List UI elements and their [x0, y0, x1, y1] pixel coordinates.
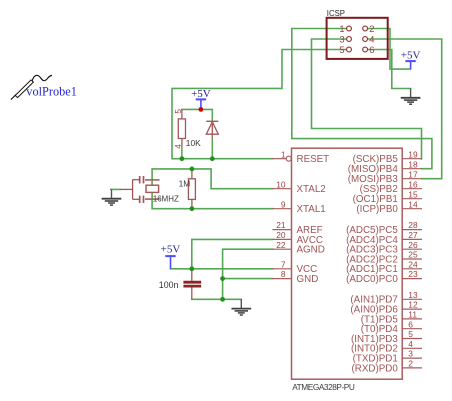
- svg-text:+5V: +5V: [401, 50, 421, 62]
- IC pin 7 VCC stub: [272, 268, 291, 270]
- svg-text:4: 4: [408, 339, 413, 349]
- svg-text:11: 11: [408, 310, 417, 320]
- svg-text:1: 1: [339, 23, 344, 34]
- svg-text:1: 1: [281, 149, 286, 159]
- IC U1 ATMEGA328P-PU body: [292, 148, 403, 379]
- ICSP pin 1 pad: [347, 26, 352, 31]
- wire net GND-ICSP: ICSP pin6 to ground symbol: [365, 50, 411, 89]
- svg-text:17: 17: [408, 169, 418, 179]
- IC pin 11 (T1)PD5 stub: [402, 318, 422, 320]
- IC pin 19 (SCK)PB5 stub: [402, 158, 422, 160]
- svg-text:16: 16: [408, 179, 418, 189]
- svg-text:2: 2: [369, 23, 374, 34]
- resistor R1 10K (reset pull-up): [178, 109, 185, 158]
- IC pin 16 (SS)PB2 stub: [402, 188, 422, 190]
- svg-text:22: 22: [276, 240, 286, 250]
- wire VCC rail: +5V to VCC pin with capacitor branch: [171, 268, 273, 270]
- junction R2 bottom on XTAL1 rail: [190, 206, 195, 211]
- wire AGND branch: AGND row down across GND row to cap-ground wire: [223, 249, 273, 299]
- IC pin 12 (AIN0)PD6 stub: [402, 308, 422, 310]
- crystal Q1 16MHZ: [145, 180, 160, 199]
- IC pin 4 (INT0)PD2 stub: [402, 347, 422, 349]
- wire GND row: junction to GND pin: [223, 278, 273, 280]
- junction D1 anode on RESET rail: [210, 156, 215, 161]
- svg-text:4: 4: [369, 33, 374, 44]
- svg-text:20: 20: [276, 230, 286, 240]
- voltage probe volProbe1 icon: [11, 75, 52, 99]
- svg-text:2: 2: [408, 359, 413, 369]
- ICSP pin 5 pad: [347, 47, 352, 52]
- IC pin 8 GND stub: [272, 278, 291, 280]
- svg-text:12: 12: [408, 300, 418, 310]
- svg-text:8: 8: [281, 269, 286, 279]
- IC pin 28 (ADC5)PC5 stub: [402, 229, 422, 231]
- +5V supply near ICSP: [401, 50, 421, 70]
- svg-text:XTAL1: XTAL1: [297, 204, 326, 215]
- wire net RESET: ICSP pin5 loop to RESET rail: [172, 50, 349, 159]
- svg-text:6: 6: [408, 319, 413, 329]
- IC pin 27 (ADC4)PC4 stub: [402, 238, 422, 240]
- wire capacitor C1 bottom to ground: [192, 298, 242, 300]
- svg-text:volProbe1: volProbe1: [26, 84, 77, 98]
- wire net MISO: ICSP pin1 loop around IC to PB4 pin 18: [292, 29, 432, 169]
- IC pin 10 XTAL2 stub: [272, 188, 291, 190]
- wire net SCK: ICSP pin3 loop to PB5 pin 19: [312, 39, 422, 159]
- resistor R2 1M (crystal feedback): [188, 169, 195, 209]
- svg-text:19: 19: [408, 149, 418, 159]
- svg-text:14: 14: [408, 199, 418, 209]
- IC pin 2 (RXD)PD0 stub: [402, 367, 422, 369]
- svg-text:ATMEGA328P-PU: ATMEGA328P-PU: [292, 382, 355, 392]
- svg-text:(ICP)PB0: (ICP)PB0: [356, 204, 398, 215]
- svg-text:XTAL2: XTAL2: [297, 184, 326, 195]
- svg-text:5: 5: [408, 329, 413, 339]
- junction +5V / VCC / C1 top: [189, 266, 194, 271]
- svg-text:18: 18: [408, 159, 418, 169]
- junction R2 top on XTAL2 rail: [190, 167, 195, 172]
- IC pin 26 (ADC3)PC3 stub: [402, 248, 422, 250]
- svg-text:1M: 1M: [179, 179, 191, 189]
- svg-text:15: 15: [408, 189, 418, 199]
- junction R1 bottom on RESET rail: [180, 156, 185, 161]
- wire net MOSI: ICSP pin4 down right side to PB3 pin 17: [365, 39, 442, 179]
- IC pin 24 (ADC1)PC1 stub: [402, 268, 422, 270]
- svg-text:23: 23: [408, 269, 418, 279]
- wire crystal ground lead: [111, 188, 121, 190]
- IC pin 18 (MISO)PB4 stub: [402, 168, 422, 170]
- connector ICSP 6-pin header outline: [327, 18, 388, 59]
- IC pin 14 (ICP)PB0 stub: [402, 208, 422, 210]
- ICSP pin 2 pad: [363, 26, 368, 31]
- svg-text:7: 7: [281, 259, 286, 269]
- IC pin 20 AVCC stub: [272, 238, 291, 240]
- IC pin 25 (ADC2)PC2 stub: [402, 258, 422, 260]
- svg-text:(RXD)PD0: (RXD)PD0: [352, 363, 399, 374]
- svg-text:26: 26: [408, 240, 418, 250]
- diode D1 (reset protection), cathode to +5V: [206, 109, 218, 158]
- svg-text:(ADC0)PC0: (ADC0)PC0: [346, 274, 398, 285]
- svg-text:3: 3: [408, 349, 413, 359]
- junction AGND column on GND row: [220, 276, 225, 281]
- ground at decoupling cap: [231, 299, 251, 315]
- svg-text:+5V: +5V: [161, 244, 181, 256]
- svg-text:16MHZ: 16MHZ: [153, 194, 179, 203]
- svg-text:AGND: AGND: [297, 245, 325, 256]
- IC pin 21 AREF stub: [272, 229, 291, 231]
- wire XTAL1 net: crystal bottom rail through R2 to XTAL1 pin: [152, 193, 273, 209]
- svg-text:100n: 100n: [159, 280, 179, 290]
- svg-text:RESET: RESET: [297, 154, 330, 165]
- svg-text:+5V: +5V: [191, 88, 211, 100]
- svg-text:ICSP: ICSP: [327, 9, 345, 18]
- wire AVCC branch: down from AVCC row to VCC rail: [192, 239, 273, 268]
- svg-text:10K: 10K: [186, 138, 201, 148]
- IC pin 15 (OC1)PB1 stub: [402, 198, 422, 200]
- svg-text:5: 5: [339, 44, 344, 55]
- IC pin 23 (ADC0)PC0 stub: [402, 278, 422, 280]
- capacitor C2 (top load cap of resonator): [133, 176, 144, 183]
- svg-text:6: 6: [369, 44, 374, 55]
- common lead of load caps to ground: [120, 180, 132, 200]
- capacitor C1 100n (decoupling): [183, 269, 201, 300]
- IC pin 13 (AIN1)PD7 stub: [402, 298, 422, 300]
- svg-text:24: 24: [408, 259, 418, 269]
- svg-text:9: 9: [281, 199, 286, 209]
- ICSP pin 4 pad: [363, 37, 368, 42]
- svg-text:28: 28: [408, 220, 418, 230]
- svg-text:3: 3: [339, 33, 344, 44]
- IC pin 9 XTAL1 stub: [272, 208, 291, 210]
- svg-text:GND: GND: [297, 274, 319, 285]
- IC pin 22 AGND stub: [272, 248, 291, 250]
- IC pin 5 (INT1)PD3 stub: [402, 338, 422, 340]
- wire +5V node above R1 and D1: [182, 108, 212, 110]
- svg-text:5: 5: [174, 109, 183, 114]
- junction dot +5V / R1 / D1 node (red): [199, 107, 204, 112]
- ICSP pin 6 pad: [363, 47, 368, 52]
- ground near ICSP: [401, 89, 421, 105]
- IC pin 17 (MOSI)PB3 stub: [402, 178, 422, 180]
- svg-text:13: 13: [408, 290, 418, 300]
- svg-text:10: 10: [276, 179, 286, 189]
- +5V supply at VCC: [161, 244, 181, 269]
- junction AGND column on cap ground wire: [220, 297, 225, 302]
- IC pin 6 (T0)PD4 stub: [402, 328, 422, 330]
- capacitor C3 (bottom load cap of resonator): [133, 196, 144, 203]
- svg-text:21: 21: [276, 220, 286, 230]
- wire net VCC-ICSP: ICSP pin2 to +5V symbol: [365, 29, 411, 70]
- svg-text:25: 25: [408, 250, 418, 260]
- wire XTAL2 net: crystal top rail through R2 to XTAL2 pin: [152, 169, 273, 189]
- ICSP pin 3 pad: [347, 37, 352, 42]
- IC pin 3 (TXD)PD1 stub: [402, 357, 422, 359]
- svg-text:27: 27: [408, 230, 418, 240]
- IC pin 1 RESET stub: [272, 158, 286, 160]
- svg-text:4: 4: [174, 144, 183, 149]
- +5V supply above reset pull-up: [191, 88, 211, 110]
- ground at crystal: [102, 189, 122, 205]
